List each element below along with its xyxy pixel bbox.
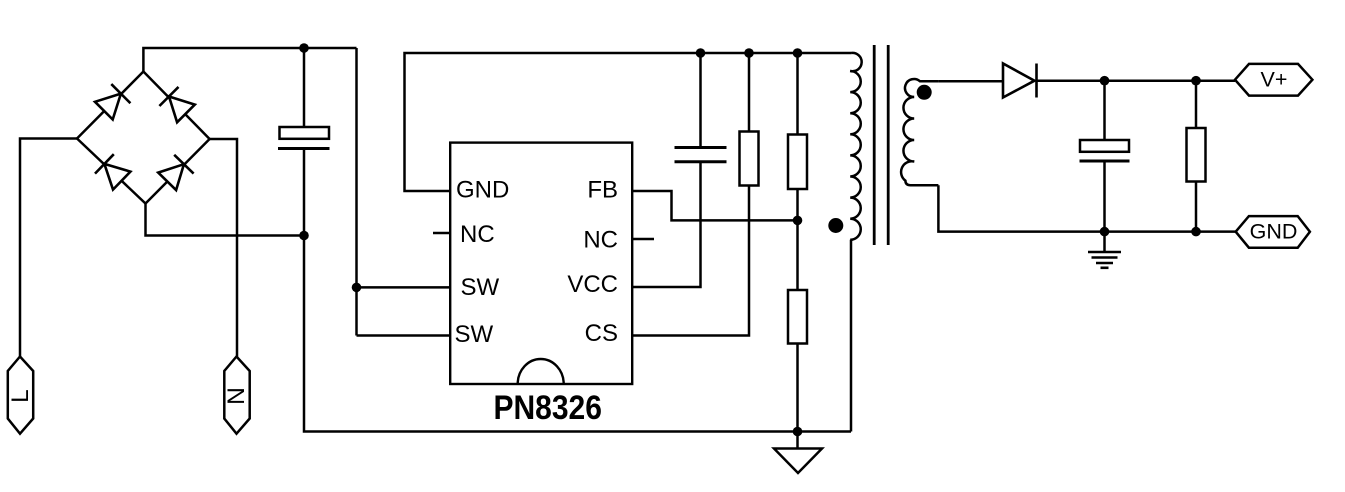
wire: R4 bottom to ground rail <box>1195 182 1198 232</box>
wire: rail down to C2 top <box>699 53 702 148</box>
wire: C3 bottom to output ground rail <box>1103 161 1106 232</box>
wire: bridge left node to L terminal <box>20 139 77 357</box>
pin stub: NC left <box>433 232 450 235</box>
svg-text:FB: FB <box>587 177 618 204</box>
bridge diode D4 (bottom-right) <box>158 155 193 190</box>
capacitor C1 bottom plate <box>278 147 330 150</box>
capacitor C2 bottom plate <box>675 160 727 163</box>
bridge diode D3 (bottom-left) <box>95 154 130 189</box>
wire: ground stub below rail <box>796 432 799 449</box>
capacitor C3 bottom plate <box>1080 160 1130 163</box>
ground: secondary-side earth symbol <box>1088 252 1121 268</box>
node: junction dot on top rail at C1 <box>299 43 309 53</box>
terminal L hexagon <box>8 357 33 434</box>
transformer T1 secondary winding <box>901 79 938 185</box>
resistor R3 <box>788 290 807 344</box>
svg-text:SW: SW <box>455 321 494 348</box>
wire: C1 bottom plate down to bottom junction <box>303 149 306 236</box>
capacitor C3 top plate (polarized) <box>1080 140 1129 152</box>
node: junction dot R4 / ground rail <box>1191 227 1201 237</box>
wire: secondary bottom down to output ground rail <box>938 185 1235 231</box>
transformer T1 core line 1 <box>873 45 876 245</box>
pin stub: NC right <box>632 238 654 241</box>
wire: bridge bottom node down and right to junction <box>146 204 305 236</box>
node: junction dot rail / C2 <box>696 48 706 58</box>
svg-text:V+: V+ <box>1261 68 1288 92</box>
node: junction dot bridge-return / C1 / primary ground rail <box>299 231 309 241</box>
svg-text:N: N <box>223 387 250 405</box>
wire: GND pin to left riser up to VCC rail <box>405 53 702 191</box>
bridge diode D2 (top-right) <box>159 87 194 122</box>
wire: down to C3 top plate <box>1103 81 1106 140</box>
wire: top rail down to C1 top plate <box>303 48 306 127</box>
ground: primary-side triangle ground symbol <box>774 449 822 474</box>
bridge edge wires <box>77 72 210 204</box>
svg-text:NC: NC <box>583 227 618 254</box>
transformer T1 secondary phase dot <box>917 85 932 100</box>
capacitor C1 top plate (polarized) <box>280 127 330 139</box>
transformer T1 core line 2 <box>887 45 890 245</box>
node: junction dot V+ / C3 <box>1100 76 1110 86</box>
wire: SW1 pin stub from riser to IC <box>357 286 451 289</box>
svg-text:CS: CS <box>585 320 618 347</box>
node: junction dot rail / R2 <box>793 48 803 58</box>
wire: earth ground stub <box>1103 232 1106 251</box>
wire: primary ground rail to transformer primary bottom riser <box>850 240 853 432</box>
node: junction dot SW riser <box>352 283 362 293</box>
wire: bridge top node to top rail and over to SW riser <box>143 48 356 72</box>
wire: secondary top to diode anode <box>938 80 1003 83</box>
wire: VCC pin right and up to C2 bottom <box>632 162 700 287</box>
transformer T1 primary phase dot <box>828 218 843 233</box>
wire: down to R4 top <box>1195 81 1198 128</box>
node: junction dot on primary ground rail <box>793 427 803 437</box>
wire: VCC rail from C2 to transformer primary top <box>701 52 852 55</box>
node: junction dot rail / R1 <box>744 48 754 58</box>
terminal V+ hexagon <box>1235 64 1312 96</box>
wire: SW2 pin stub from riser bottom to IC <box>357 334 451 337</box>
terminal N hexagon <box>224 357 249 434</box>
svg-text:SW: SW <box>461 274 500 301</box>
wire: R2 bottom to feedback node <box>796 189 799 220</box>
wire: CS pin right and up to R1 bottom <box>632 186 749 336</box>
svg-text:PN8326: PN8326 <box>493 389 602 427</box>
wire: diode cathode to V+ terminal <box>1037 79 1236 82</box>
capacitor C2 top plate <box>675 146 727 149</box>
svg-text:GND: GND <box>1250 220 1298 244</box>
terminal GND hexagon <box>1236 216 1310 248</box>
wire: R3 bottom to primary ground rail <box>796 344 799 432</box>
wire: bridge right node to N terminal <box>210 139 237 357</box>
wire: feedback node down to R3 top <box>796 220 799 290</box>
wire: rail down to R2 top <box>796 53 799 135</box>
node: junction dot V+ / R4 <box>1191 76 1201 86</box>
svg-text:VCC: VCC <box>567 271 618 298</box>
bridge diode D1 (left-top) <box>95 84 130 119</box>
wire: rail down to R1 top <box>748 53 751 132</box>
node: junction dot C3 / ground rail <box>1100 227 1110 237</box>
svg-text:NC: NC <box>460 221 495 248</box>
resistor R2 <box>788 135 807 190</box>
node: junction dot feedback divider <box>793 216 803 226</box>
svg-text:GND: GND <box>456 177 509 204</box>
svg-text:L: L <box>7 389 34 403</box>
diode D5 output rectifier <box>1003 64 1037 98</box>
resistor R4 <box>1187 128 1206 182</box>
wire: FB pin right, down, and to feedback node <box>632 191 797 220</box>
IC U1 PN8326 body <box>450 143 632 384</box>
resistor R1 <box>740 132 759 186</box>
wire: junction down and along primary ground rail to transformer <box>304 236 851 432</box>
transformer T1 primary winding <box>850 53 861 240</box>
IC U1 orientation notch <box>518 359 564 384</box>
wire: SW riser from top rail down to SW2 pin row <box>355 48 358 336</box>
